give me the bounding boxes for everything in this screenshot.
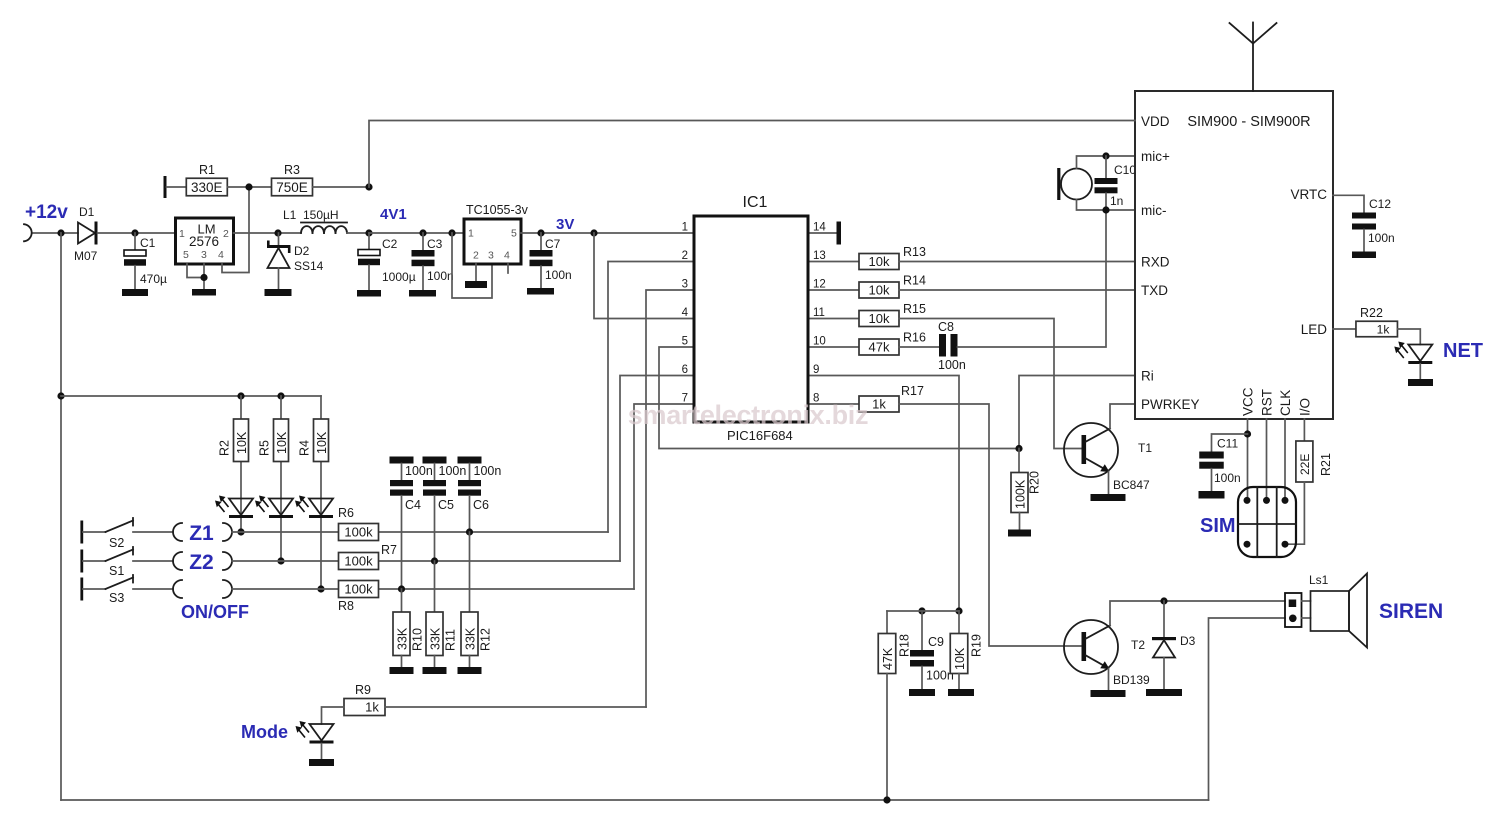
resistor R21 bbox=[1296, 441, 1333, 482]
svg-text:NET: NET bbox=[1443, 340, 1483, 362]
node D2 tap bbox=[274, 229, 281, 236]
connector arcs row S3 bbox=[173, 580, 182, 598]
resistor R7 bbox=[339, 543, 398, 570]
node LM2576 pin3-5 junction bbox=[200, 274, 207, 281]
resistor R22 bbox=[1356, 306, 1398, 337]
wire R14 to TXD bbox=[899, 289, 1136, 291]
svg-text:33K: 33K bbox=[395, 627, 409, 650]
wire R12 to ground bbox=[469, 656, 471, 668]
wire IC1 pin11 to R15 bbox=[808, 318, 859, 320]
capacitor C5 bbox=[423, 464, 454, 513]
ground of R20 bbox=[1008, 530, 1031, 537]
svg-text:R7: R7 bbox=[381, 543, 397, 557]
wire siren connector to speaker bbox=[1302, 600, 1311, 602]
svg-text:2: 2 bbox=[682, 250, 688, 262]
svg-text:D2: D2 bbox=[294, 244, 310, 258]
svg-text:R11: R11 bbox=[444, 629, 458, 651]
svg-text:10k: 10k bbox=[869, 254, 890, 269]
svg-text:4V1: 4V1 bbox=[380, 206, 407, 223]
svg-text:Mode: Mode bbox=[241, 722, 288, 742]
svg-text:BD139: BD139 bbox=[1113, 673, 1150, 687]
wire R4 column bbox=[320, 396, 322, 589]
svg-text:10K: 10K bbox=[275, 431, 289, 454]
wire R16 to C8 bbox=[899, 346, 939, 348]
capacitor C9 bbox=[910, 611, 954, 689]
capacitor C12 bbox=[1352, 197, 1395, 252]
wire IC1 pin6 to Z2 row bbox=[620, 376, 694, 562]
node C11 tap bbox=[1244, 430, 1251, 437]
svg-text:S2: S2 bbox=[109, 536, 124, 550]
capacitor C4 bbox=[390, 464, 421, 513]
ground of C1 bbox=[122, 289, 148, 296]
transistor T1 bbox=[1064, 423, 1152, 494]
transistor T2 bbox=[1064, 620, 1150, 690]
resistor R16 bbox=[859, 331, 926, 356]
capacitor C2 bbox=[358, 233, 416, 290]
inductor L1 bbox=[283, 208, 347, 233]
svg-text:SIREN: SIREN bbox=[1379, 600, 1443, 623]
LED ON/OFF bbox=[295, 496, 333, 519]
wire C8 to mic- node bbox=[958, 210, 1107, 347]
svg-text:RXD: RXD bbox=[1141, 255, 1170, 270]
wire IC1 pin12 to R14 bbox=[808, 289, 859, 291]
svg-text:T2: T2 bbox=[1131, 638, 1145, 652]
svg-text:100n: 100n bbox=[1214, 471, 1241, 485]
node C5/R11 at row bbox=[431, 557, 438, 564]
resistor R1 bbox=[186, 163, 227, 196]
svg-text:R19: R19 bbox=[970, 634, 984, 657]
wire R2 column bbox=[240, 396, 242, 532]
ground of C4 bbox=[390, 457, 414, 464]
wire R18 to +12v bottom rail bbox=[886, 674, 888, 801]
wire R1 to R3 bbox=[227, 186, 271, 188]
ground of T2 emitter bbox=[1091, 690, 1126, 697]
wire R20 column bbox=[1018, 449, 1020, 473]
svg-text:C10: C10 bbox=[1114, 163, 1136, 177]
svg-text:10k: 10k bbox=[869, 311, 890, 326]
svg-text:T1: T1 bbox=[1138, 441, 1152, 455]
resistor R11 bbox=[426, 612, 458, 656]
switch S3 bbox=[80, 575, 133, 605]
node R18 bottom rail bbox=[883, 796, 890, 803]
node C7 tap bbox=[537, 229, 544, 236]
resistor R4 bbox=[298, 419, 330, 462]
LED Z2 bbox=[255, 496, 293, 519]
svg-text:4: 4 bbox=[218, 249, 224, 261]
svg-text:100n: 100n bbox=[938, 358, 966, 372]
ground of T1 emitter bbox=[1091, 494, 1126, 501]
wire R18 top bbox=[886, 611, 888, 634]
wire C9 node row bbox=[887, 610, 959, 612]
microphone MIC bbox=[1057, 168, 1092, 200]
svg-text:C7: C7 bbox=[545, 237, 561, 251]
wire R22 to NET LED bbox=[1398, 329, 1421, 345]
ground of C2 bbox=[357, 290, 381, 297]
wire L1 to C2 node bbox=[347, 232, 369, 234]
resistor R15 bbox=[859, 302, 926, 327]
svg-text:Ri: Ri bbox=[1141, 369, 1154, 384]
node LED Z2 cathode to row bbox=[277, 557, 284, 564]
svg-text:4: 4 bbox=[682, 307, 689, 319]
svg-text:470µ: 470µ bbox=[140, 272, 167, 286]
wire 3V to IC1 pin4 bbox=[594, 233, 694, 319]
SIM card socket bbox=[1238, 487, 1296, 557]
svg-text:5: 5 bbox=[183, 249, 189, 261]
svg-text:R8: R8 bbox=[338, 599, 354, 613]
svg-text:1000µ: 1000µ bbox=[382, 270, 416, 284]
svg-text:C2: C2 bbox=[382, 237, 398, 251]
wire siren return to bottom rail bbox=[1209, 618, 1286, 800]
module SIM900 box bbox=[1135, 91, 1333, 419]
svg-text:IC1: IC1 bbox=[743, 194, 768, 211]
svg-text:R10: R10 bbox=[411, 628, 425, 651]
wire R3 to 4V1 riser bbox=[313, 186, 370, 188]
svg-text:R5: R5 bbox=[258, 440, 272, 456]
node C4/R10 at row bbox=[398, 585, 405, 592]
wire row to R12 bbox=[469, 532, 471, 612]
microcontroller IC1 box bbox=[694, 216, 808, 422]
connector arcs row S2 bbox=[173, 523, 182, 541]
wire R1 left bbox=[167, 186, 187, 188]
wire Ri to T1 node bbox=[1019, 376, 1136, 449]
wire R19 to ground bbox=[958, 674, 960, 690]
node T1 base / R20 / pin5 junction bbox=[1015, 445, 1022, 452]
svg-text:R13: R13 bbox=[903, 245, 926, 259]
node TC1055 pin3 loop tap bbox=[448, 229, 455, 236]
resistor R2 bbox=[218, 419, 250, 462]
resistor R5 bbox=[258, 419, 290, 462]
node mic- / C8 riser bbox=[1102, 206, 1109, 213]
svg-text:10K: 10K bbox=[953, 647, 967, 670]
svg-text:R14: R14 bbox=[903, 274, 926, 288]
svg-text:R1: R1 bbox=[199, 163, 215, 177]
resistor R18 bbox=[878, 634, 911, 674]
resistor R3 bbox=[272, 163, 313, 196]
wire IC1 pin10 to R16 bbox=[808, 346, 859, 348]
svg-text:+12v: +12v bbox=[25, 202, 68, 223]
wire VRTC to C12 bbox=[1333, 195, 1364, 212]
svg-text:SIM: SIM bbox=[1200, 515, 1236, 537]
svg-text:100n: 100n bbox=[439, 464, 467, 478]
wire LM2576 pins 5+3 to ground bbox=[187, 264, 204, 278]
node C9 junction bbox=[918, 607, 925, 614]
wire row to R10 bbox=[401, 589, 403, 612]
node 4V1 riser at R3 row bbox=[365, 183, 372, 190]
wire IC1 pin3 to R9 bbox=[646, 290, 694, 707]
svg-text:10: 10 bbox=[813, 336, 826, 348]
wire IC1 pin2 to Z1 row bbox=[608, 262, 694, 533]
svg-text:R20: R20 bbox=[1028, 471, 1042, 494]
svg-text:14: 14 bbox=[813, 222, 826, 234]
svg-text:VCC: VCC bbox=[1241, 387, 1256, 416]
wire Mode LED to ground bbox=[321, 744, 323, 760]
svg-text:BC847: BC847 bbox=[1113, 478, 1150, 492]
connector arcs row S1 bbox=[173, 552, 182, 570]
svg-text:C12: C12 bbox=[1369, 197, 1391, 211]
wire VCC to SIM socket bbox=[1247, 419, 1249, 500]
svg-text:11: 11 bbox=[813, 307, 825, 319]
ground of R19 bbox=[948, 689, 974, 696]
LED Z1 bbox=[215, 496, 253, 519]
svg-text:Z1: Z1 bbox=[189, 522, 214, 545]
wire R17 to T2 base bbox=[899, 404, 1082, 646]
svg-text:100n: 100n bbox=[427, 269, 454, 283]
svg-text:R17: R17 bbox=[901, 384, 924, 398]
svg-text:ON/OFF: ON/OFF bbox=[181, 602, 249, 622]
svg-text:150µH: 150µH bbox=[303, 208, 339, 222]
svg-text:10K: 10K bbox=[235, 431, 249, 454]
svg-text:S1: S1 bbox=[109, 564, 124, 578]
svg-text:47K: 47K bbox=[881, 647, 895, 670]
terminal bar of R1 bbox=[164, 176, 167, 198]
ground of Mode LED bbox=[309, 759, 334, 766]
node R1-R3 feedback bbox=[245, 183, 252, 190]
wire row to R11 bbox=[434, 561, 436, 612]
node C6/R12 at row bbox=[466, 528, 473, 535]
node 3V branch to IC1 pin4 bbox=[590, 229, 597, 236]
wire IC1 pin13 to R13 bbox=[808, 261, 859, 263]
resistor R20 bbox=[1011, 471, 1042, 512]
diode D2 (schottky SS14) bbox=[267, 233, 324, 289]
svg-text:VRTC: VRTC bbox=[1290, 187, 1327, 202]
svg-text:100K: 100K bbox=[1013, 479, 1027, 509]
LED Mode bbox=[296, 721, 334, 744]
capacitor C10 bbox=[1095, 163, 1137, 208]
node left rail to pullup feed bbox=[57, 392, 64, 399]
terminal bar of IC1 pin14 bbox=[837, 222, 842, 245]
wire 3V rail TC1055 pin5 to IC1 pin1 bbox=[521, 232, 694, 234]
wire R21 to SIM socket right bbox=[1285, 482, 1304, 544]
wire LED pin to R22 bbox=[1333, 328, 1356, 330]
resistor R12 bbox=[461, 612, 493, 656]
svg-text:TC1055-3v: TC1055-3v bbox=[466, 203, 529, 217]
svg-text:R16: R16 bbox=[903, 331, 926, 345]
wire C4 to row bbox=[401, 496, 403, 589]
node LED Z1 cathode to row bbox=[237, 528, 244, 535]
svg-text:S3: S3 bbox=[109, 591, 124, 605]
svg-text:4: 4 bbox=[504, 250, 510, 262]
svg-text:10K: 10K bbox=[315, 431, 329, 454]
ground of D2 bbox=[265, 289, 292, 296]
svg-text:33K: 33K bbox=[428, 627, 442, 650]
svg-text:12: 12 bbox=[813, 279, 826, 291]
switch S1 bbox=[80, 547, 133, 578]
wire R13 to RXD bbox=[899, 261, 1136, 263]
node LED ON/OFF cathode to row bbox=[317, 585, 324, 592]
regulator LM2576 box bbox=[176, 218, 234, 264]
svg-text:6: 6 bbox=[682, 364, 688, 376]
ground of R10 bbox=[390, 667, 414, 674]
capacitor C3 bbox=[412, 233, 454, 290]
svg-text:D3: D3 bbox=[1180, 634, 1196, 648]
node D3 tap bbox=[1160, 597, 1167, 604]
svg-text:33K: 33K bbox=[463, 627, 477, 650]
ground of TC1055 pin2 bbox=[465, 281, 487, 288]
node R19 / pin9 junction bbox=[955, 607, 962, 614]
svg-text:CLK: CLK bbox=[1278, 390, 1293, 416]
wire ON/OFF row bbox=[232, 588, 634, 590]
wire 4V1 rail to TC1055 pin1 bbox=[369, 232, 464, 234]
wire R9 to IC1 pin3 riser bbox=[385, 706, 646, 708]
svg-text:1k: 1k bbox=[872, 397, 886, 412]
svg-text:100k: 100k bbox=[344, 582, 373, 597]
capacitor C6 bbox=[458, 464, 489, 513]
ground of R11 bbox=[423, 667, 447, 674]
resistor R14 bbox=[859, 274, 926, 299]
wire LM2576 pin2 to L1 bbox=[234, 232, 302, 234]
resistor R13 bbox=[859, 245, 926, 270]
wire C10 bottom to mic- node bbox=[1105, 193, 1107, 210]
wire NET LED to ground bbox=[1419, 364, 1421, 379]
resistor R6 bbox=[338, 506, 379, 541]
ground of C12 bbox=[1352, 252, 1376, 259]
svg-text:LED: LED bbox=[1301, 322, 1328, 337]
wire +12v bottom rail bbox=[61, 799, 1209, 801]
svg-text:1k: 1k bbox=[365, 700, 379, 715]
svg-text:100n: 100n bbox=[545, 268, 572, 282]
capacitor C7 bbox=[530, 233, 572, 288]
node R2 top bbox=[237, 392, 244, 399]
wire R20 to ground bbox=[1019, 513, 1021, 530]
wire mic+ row bbox=[1077, 156, 1137, 169]
resistor R17 bbox=[859, 384, 924, 412]
wire D1 cathode to LM2576 pin1 bbox=[98, 232, 176, 234]
antenna ANT1 bbox=[1230, 23, 1277, 92]
svg-text:VDD: VDD bbox=[1141, 114, 1170, 129]
wire R15 to T1 base bbox=[899, 319, 1082, 449]
svg-text:100n: 100n bbox=[1368, 231, 1395, 245]
svg-text:C3: C3 bbox=[427, 237, 443, 251]
svg-text:100n: 100n bbox=[405, 464, 433, 478]
svg-text:3: 3 bbox=[488, 250, 494, 262]
wire +12v input to D1 anode bbox=[33, 232, 79, 234]
svg-text:RST: RST bbox=[1260, 389, 1275, 416]
wire R9 to Mode LED bbox=[322, 707, 345, 724]
svg-text:R3: R3 bbox=[284, 163, 300, 177]
svg-text:smartelectronix.biz: smartelectronix.biz bbox=[628, 400, 868, 430]
svg-text:C1: C1 bbox=[140, 236, 156, 250]
svg-text:R21: R21 bbox=[1319, 453, 1333, 476]
svg-text:SS14: SS14 bbox=[294, 259, 324, 273]
capacitor C1 bbox=[124, 233, 167, 289]
wire +12v left rail (down) bbox=[60, 233, 62, 800]
svg-text:mic+: mic+ bbox=[1141, 149, 1170, 164]
svg-text:2: 2 bbox=[473, 250, 479, 262]
svg-text:M07: M07 bbox=[74, 249, 98, 263]
ground of C11 bbox=[1199, 491, 1225, 499]
svg-text:3: 3 bbox=[682, 279, 688, 291]
node R5 top bbox=[277, 392, 284, 399]
diode D3 bbox=[1152, 601, 1196, 689]
ground of LM2576 bbox=[192, 289, 216, 296]
wire TC1055 pin3 loop bbox=[452, 233, 492, 298]
capacitor C11 bbox=[1199, 434, 1247, 491]
resistor R8 bbox=[338, 581, 379, 614]
svg-text:100k: 100k bbox=[344, 554, 373, 569]
wire I/O to R21 bbox=[1303, 419, 1305, 441]
wire RST to SIM socket bbox=[1266, 419, 1268, 500]
wire mic- row bbox=[1077, 200, 1137, 211]
ground of C5 bbox=[423, 457, 447, 464]
svg-text:5: 5 bbox=[511, 228, 517, 240]
speaker Ls1 bbox=[1309, 573, 1367, 648]
node C3 tap bbox=[419, 229, 426, 236]
wire C5 to row bbox=[434, 496, 436, 561]
svg-text:R12: R12 bbox=[479, 628, 493, 651]
wire T1 collector to PWRKEY bbox=[1110, 404, 1136, 429]
svg-text:1k: 1k bbox=[1377, 323, 1391, 337]
ground of C3 bbox=[409, 290, 436, 297]
svg-text:13: 13 bbox=[813, 250, 826, 262]
wire S3 to connector bbox=[133, 588, 173, 590]
ground of NET LED bbox=[1408, 379, 1433, 386]
svg-text:D1: D1 bbox=[79, 205, 95, 219]
wire C10 top bbox=[1105, 156, 1107, 178]
wire Z1 row bbox=[232, 531, 608, 533]
switch S2 bbox=[80, 518, 133, 550]
svg-text:22E: 22E bbox=[1298, 454, 1312, 475]
svg-text:5: 5 bbox=[682, 336, 688, 348]
svg-text:47k: 47k bbox=[869, 340, 890, 355]
svg-text:330E: 330E bbox=[191, 180, 223, 195]
svg-text:C8: C8 bbox=[938, 320, 954, 334]
svg-text:I/O: I/O bbox=[1298, 398, 1313, 416]
ground of C9 bbox=[909, 689, 935, 696]
wire LM2576 pin4 feedback to R1-R3 node bbox=[222, 187, 249, 273]
wire IC1 pin14 to terminal bar bbox=[808, 232, 837, 234]
svg-text:C4: C4 bbox=[405, 498, 421, 512]
svg-text:2: 2 bbox=[223, 228, 229, 240]
wire IC1 pin7 to ON/OFF row bbox=[634, 404, 694, 589]
wire pullup feed 3 resistors bbox=[61, 395, 321, 397]
svg-text:R6: R6 bbox=[338, 506, 354, 520]
capacitor C8 bbox=[938, 320, 966, 372]
wire S2 to connector bbox=[133, 531, 173, 533]
svg-text:R4: R4 bbox=[298, 440, 312, 456]
svg-text:750E: 750E bbox=[276, 180, 308, 195]
wire R10 to ground bbox=[401, 656, 403, 668]
stub TC1055 pin4 bbox=[507, 264, 509, 273]
svg-text:10k: 10k bbox=[869, 283, 890, 298]
svg-text:1: 1 bbox=[179, 228, 185, 240]
svg-text:TXD: TXD bbox=[1141, 283, 1168, 298]
svg-text:Z2: Z2 bbox=[189, 551, 214, 574]
svg-text:2576: 2576 bbox=[189, 234, 219, 249]
ground of C6 bbox=[458, 457, 482, 464]
svg-text:SIM900 - SIM900R: SIM900 - SIM900R bbox=[1187, 114, 1310, 130]
wire TC1055 pin2 to ground bbox=[475, 264, 477, 281]
resistor R10 bbox=[393, 612, 425, 656]
svg-text:R22: R22 bbox=[1360, 306, 1383, 320]
wire CLK to SIM socket bbox=[1284, 419, 1286, 500]
wire IC1 pin5 to T1 base node bbox=[659, 347, 1019, 449]
diode D1 bbox=[74, 205, 98, 263]
svg-text:3: 3 bbox=[201, 249, 207, 261]
svg-text:C6: C6 bbox=[473, 498, 489, 512]
wire VDD line bbox=[369, 121, 1135, 188]
resistor R9 bbox=[344, 683, 385, 716]
resistor R19 bbox=[950, 634, 983, 674]
svg-text:1n: 1n bbox=[1110, 194, 1123, 208]
wire S1 to connector bbox=[133, 560, 173, 562]
regulator TC1055 box bbox=[464, 219, 521, 264]
svg-text:PWRKEY: PWRKEY bbox=[1141, 397, 1200, 412]
wire IC1 pin9 to C9 node bbox=[808, 376, 959, 612]
wire C6 to row bbox=[469, 496, 471, 532]
svg-text:PIC16F684: PIC16F684 bbox=[727, 428, 793, 443]
svg-text:L1: L1 bbox=[283, 208, 297, 222]
node +12v rail tap bbox=[57, 229, 64, 236]
